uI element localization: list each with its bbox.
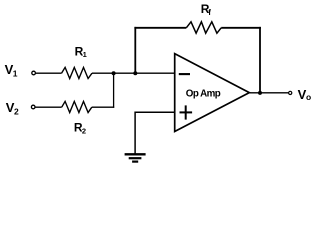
wire V2 terminal to R2	[35, 106, 62, 108]
op-amp inverting pin minus sign	[179, 73, 190, 75]
node Vo label	[298, 87, 312, 102]
wire node B up to feedback rail	[134, 27, 136, 73]
op-amp non-inverting pin plus sign	[180, 105, 193, 119]
junction node A (R2 join)	[112, 71, 116, 75]
wire feedback top rail right	[221, 27, 261, 29]
junction node B (feedback join)	[133, 71, 137, 75]
label Rf	[201, 2, 212, 17]
resistor Rf	[186, 22, 221, 33]
resistor R2	[62, 101, 92, 112]
wire ground riser	[134, 112, 136, 155]
svg-text:Op Amp: Op Amp	[186, 88, 221, 99]
svg-text:2: 2	[82, 126, 86, 135]
svg-text:2: 2	[14, 106, 19, 116]
op-amp U1 triangle	[175, 54, 250, 132]
svg-text:1: 1	[83, 50, 87, 59]
wire non-inverting input	[135, 111, 175, 113]
wire R1 to inverting input	[92, 72, 175, 74]
ground	[125, 154, 146, 161]
output terminal Vo	[289, 91, 292, 94]
resistor R1	[62, 67, 93, 78]
wire op-amp output	[249, 92, 288, 94]
wire feedback top rail left	[134, 27, 186, 29]
label R1	[75, 45, 87, 60]
node V1 label	[5, 62, 18, 78]
wire R2 to riser elbow	[92, 106, 114, 108]
svg-text:f: f	[208, 8, 211, 17]
junction node output	[258, 91, 262, 95]
svg-text:1: 1	[13, 69, 18, 79]
svg-text:o: o	[306, 92, 311, 102]
input terminal V1	[32, 71, 36, 75]
wire V1 terminal to R1	[36, 72, 62, 74]
wire R2 riser up to node A	[113, 73, 115, 108]
label R2	[74, 121, 86, 136]
input terminal V2	[31, 105, 35, 109]
node V2 label	[6, 100, 19, 116]
wire feedback right riser down to output node	[259, 27, 261, 93]
